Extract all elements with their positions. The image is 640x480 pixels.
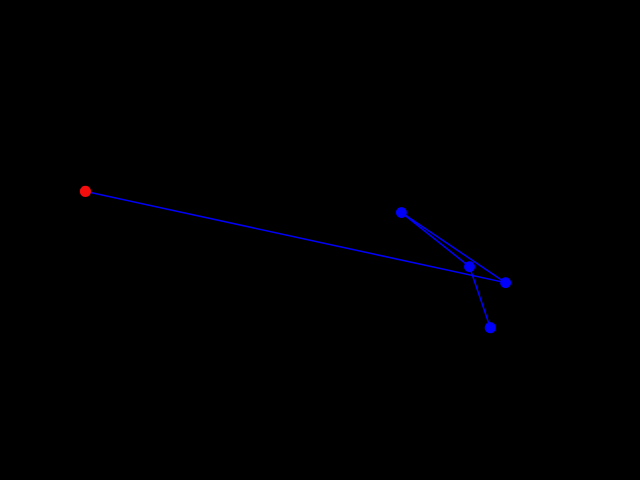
edge N1-N2 bbox=[401, 213, 469, 267]
node N1 (blue) bbox=[396, 207, 407, 218]
edge N0-N3 bbox=[85, 191, 505, 282]
node N2 (blue) bbox=[464, 261, 475, 272]
node N0 (red) bbox=[80, 186, 91, 197]
node N3 (blue) bbox=[500, 277, 511, 288]
edge N2-N4 bbox=[470, 267, 491, 328]
edge N1-N3 bbox=[401, 213, 505, 283]
node N4 (blue) bbox=[485, 322, 496, 333]
